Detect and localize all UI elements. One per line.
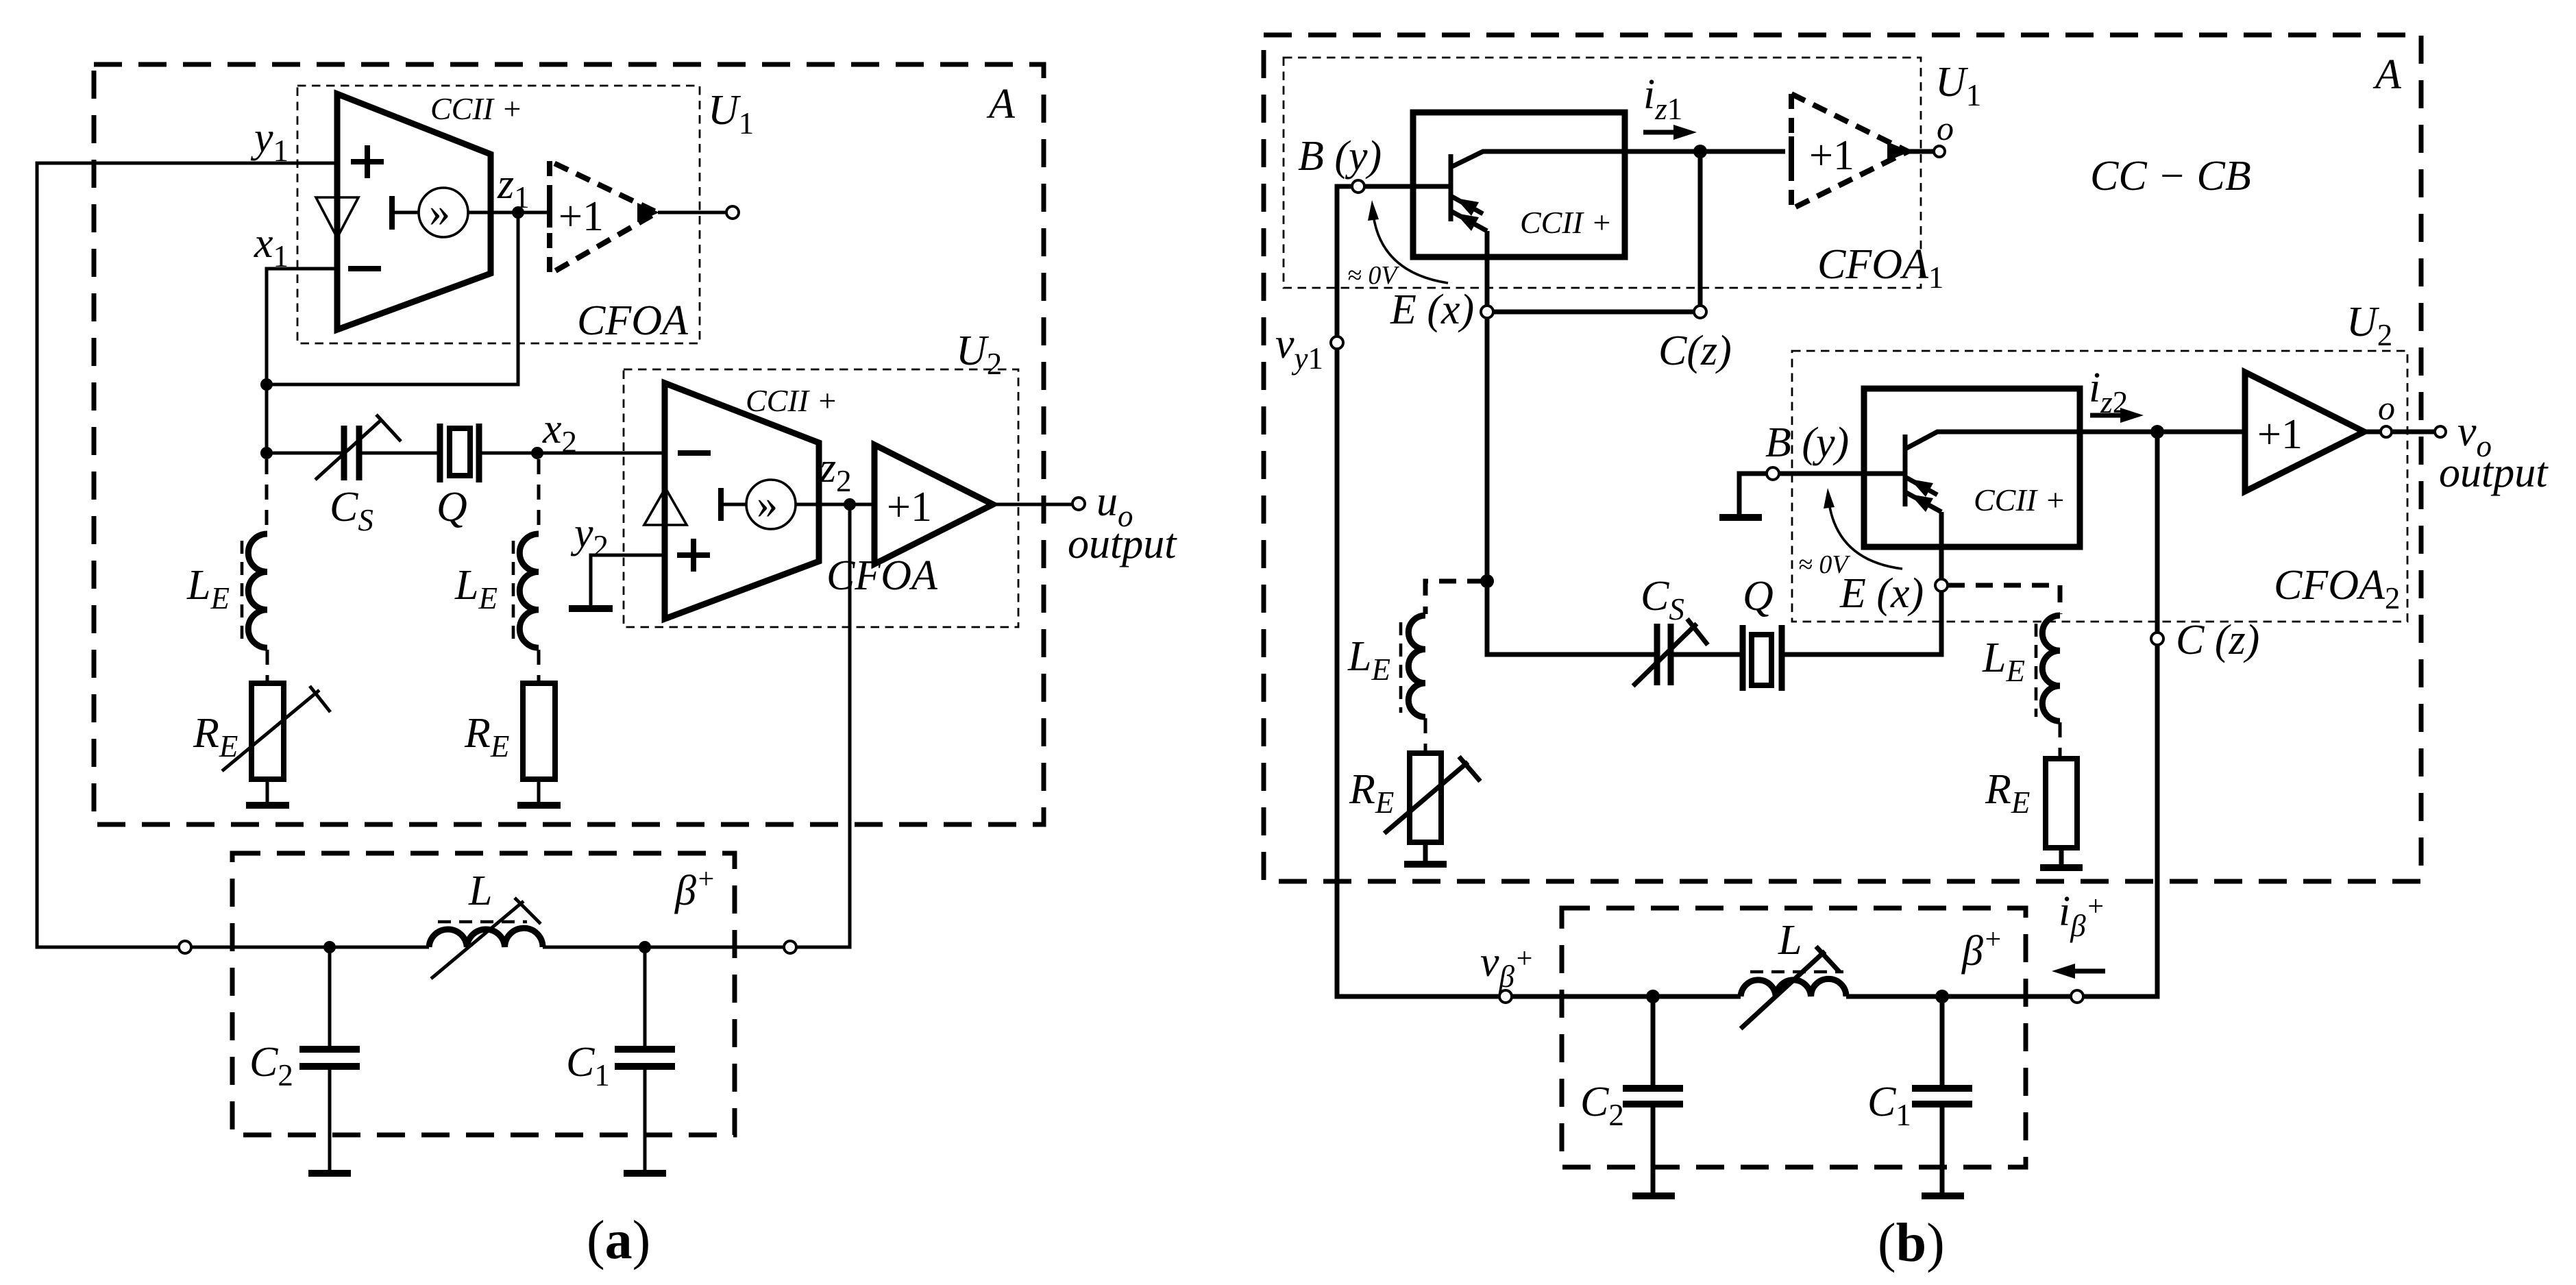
wire E(x) down to crystal branch xyxy=(1487,318,1654,654)
svg-text:CFOA1: CFOA1 xyxy=(1817,241,1943,295)
wire base B(y) to transistor xyxy=(1364,184,1451,189)
svg-text:CS: CS xyxy=(330,484,373,537)
U1 current source circle xyxy=(419,188,468,237)
svg-text:y2: y2 xyxy=(570,510,609,563)
feedback network beta+ dashed box xyxy=(232,853,735,1135)
svg-text:vβ+: vβ+ xyxy=(1480,939,1534,994)
capacitor C2 xyxy=(328,947,332,1049)
wire y1 (top input wire to U1 +) xyxy=(37,163,337,947)
svg-text:+1: +1 xyxy=(559,193,604,240)
U1 current source bar xyxy=(389,196,395,230)
terminal E(x) of U2 xyxy=(1935,579,1948,591)
junction E(x)1 to LE branch xyxy=(1480,574,1494,588)
resistor RE (left, variable, fig b) xyxy=(1410,753,1441,842)
wire emitter down to E(x) xyxy=(1485,231,1490,306)
wire base B(y)2 xyxy=(1779,472,1905,476)
terminal vo output xyxy=(2435,426,2446,437)
CFOA2 dotted box xyxy=(1792,351,2407,622)
CFOA U1 dotted box xyxy=(297,86,700,343)
wire y2 with ground xyxy=(591,555,665,606)
terminal vy1 xyxy=(1331,336,1343,349)
wire z1 drop to C(z) xyxy=(1698,151,1703,306)
svg-text:E (x): E (x) xyxy=(1839,570,1924,617)
terminal left port of beta network xyxy=(179,941,191,953)
L adjust arrow (b) xyxy=(1741,951,1825,1029)
CCII+ box of CFOA2 xyxy=(1864,389,2080,547)
svg-text:CCII +: CCII + xyxy=(746,383,838,418)
terminal right port of beta network xyxy=(784,941,796,953)
node z2 junction dot xyxy=(844,498,856,511)
ground (C1) xyxy=(624,1170,666,1177)
op-amp U2 CCII+ trapezoid xyxy=(665,383,819,619)
svg-text:CFOA2: CFOA2 xyxy=(2274,562,2400,615)
svg-text:CCII +: CCII + xyxy=(430,91,523,126)
terminal o of U2b xyxy=(2381,426,2392,437)
U1 minus input symbol xyxy=(348,266,381,271)
svg-text:C1: C1 xyxy=(1867,1079,1911,1132)
inductor LE (left, fig b) xyxy=(1408,615,1425,717)
svg-text:iz1: iz1 xyxy=(1643,71,1682,126)
dashed link LE to RE (right) xyxy=(537,650,541,683)
transistor Q1 emitter (double) xyxy=(1452,197,1483,214)
terminal v beta+ xyxy=(1499,990,1512,1003)
crystal Q xyxy=(440,424,479,482)
svg-text:U1: U1 xyxy=(708,87,754,140)
svg-text:≈ 0V: ≈ 0V xyxy=(1347,261,1399,290)
transistor Q2 collector xyxy=(1906,432,2245,448)
svg-text:x2: x2 xyxy=(542,406,577,459)
iz2 arrow xyxy=(2090,413,2123,418)
wire B(y)2 to ground xyxy=(1739,474,1767,515)
junction x1-z1 xyxy=(260,378,273,391)
wire RE left to ground (b) xyxy=(1423,842,1428,861)
buffer +1 of U1 (dashed) xyxy=(550,161,657,274)
svg-text:z1: z1 xyxy=(497,161,530,215)
wire vy1 vertical xyxy=(1337,186,1352,336)
svg-text:C(z): C(z) xyxy=(1658,328,1732,374)
resistor RE (left, variable) xyxy=(252,683,284,779)
svg-text:≈ 0V: ≈ 0V xyxy=(1798,550,1850,579)
svg-text:(a): (a) xyxy=(587,1210,650,1271)
node z1 junction dot xyxy=(512,206,524,219)
svg-text:+1: +1 xyxy=(1809,132,1854,179)
capacitor CS (variable, series) xyxy=(344,426,359,480)
capacitor C1 (b) xyxy=(1940,996,1945,1088)
resistor RE (right, fig b) xyxy=(2046,759,2077,848)
node z1 junction (b) xyxy=(1693,145,1707,158)
ground (B(y)2) xyxy=(1719,514,1762,521)
dashed link to LE left (b) xyxy=(1425,581,1484,614)
svg-text:CFOA: CFOA xyxy=(826,552,938,599)
i beta+ arrow xyxy=(2072,969,2105,974)
wire RE right to ground (b) xyxy=(2059,848,2064,865)
svg-text:(b): (b) xyxy=(1878,1213,1945,1273)
wire U2 buffer to output xyxy=(993,503,1072,506)
L core dashed line xyxy=(438,920,527,924)
wire v beta+ into network xyxy=(1512,994,1741,999)
wire buffer2 out xyxy=(2364,430,2380,435)
svg-text:output: output xyxy=(1068,521,1177,567)
junction C1 top xyxy=(639,941,651,953)
transistor Q1 collector xyxy=(1452,151,1785,167)
ground (C1 b) xyxy=(1922,1192,1964,1199)
svg-text:»: » xyxy=(429,189,450,236)
transistor Q1 base bar xyxy=(1449,154,1453,221)
emitter arrowheads Q2 xyxy=(1910,479,1933,497)
LE right core dashed line xyxy=(512,541,515,641)
wire Cs to Q xyxy=(360,452,439,455)
terminal C(z) of U1 xyxy=(1694,306,1706,318)
node z2 junction (b) xyxy=(2150,425,2164,439)
svg-text:CCII +: CCII + xyxy=(1974,482,2066,517)
U1 voltage follower triangle xyxy=(316,197,358,238)
wire port to C1 node xyxy=(645,946,784,949)
junction C2 top (b) xyxy=(1646,990,1660,1003)
ground (RE left) xyxy=(246,802,289,809)
svg-text:β+: β+ xyxy=(1961,924,2002,975)
curved arrow 0V U2 xyxy=(1829,503,1902,569)
wire CS to Q (b) xyxy=(1673,652,1740,657)
transistor Q2 emitter (double) xyxy=(1906,478,1937,495)
dashed drop to right LE xyxy=(537,459,541,534)
wire z1 out of U1 xyxy=(468,211,550,215)
svg-text:iβ+: iβ+ xyxy=(2059,888,2105,943)
svg-text:C1: C1 xyxy=(566,1039,610,1092)
svg-text:C2: C2 xyxy=(249,1039,293,1092)
buffer +1 of U2 xyxy=(874,445,993,564)
wire z2 down to feedback network xyxy=(796,504,850,947)
wire RE right to ground xyxy=(537,779,541,803)
junction x2 xyxy=(531,447,543,459)
svg-text:CFOA: CFOA xyxy=(577,297,689,344)
wire x-z feedback (b U1) xyxy=(1493,310,1694,315)
svg-text:A: A xyxy=(2372,51,2402,98)
svg-text:o: o xyxy=(2378,389,2395,427)
svg-text:LE: LE xyxy=(454,562,498,615)
svg-text:vy1: vy1 xyxy=(1275,321,1323,376)
ground (RE right b) xyxy=(2040,864,2083,871)
svg-text:+1: +1 xyxy=(887,484,932,530)
CCII+ box of CFOA1 xyxy=(1413,112,1625,257)
ground (RE left b) xyxy=(1404,861,1447,868)
U1 plus input symbol xyxy=(351,145,384,178)
svg-text:C2: C2 xyxy=(1580,1079,1624,1132)
svg-text:RE: RE xyxy=(193,710,238,763)
svg-text:L: L xyxy=(468,868,492,914)
amplifier block A dashed box xyxy=(94,64,1044,824)
inductor LE (right, fig b) xyxy=(2042,615,2060,721)
wire L to C1 node (b) xyxy=(1846,994,2071,999)
wire L to C1 node xyxy=(543,946,645,949)
inductor LE (left, fig a) xyxy=(248,534,267,648)
svg-text:o: o xyxy=(1937,109,1954,147)
svg-text:Q: Q xyxy=(437,484,467,530)
inductor L (variable, fig a) xyxy=(429,928,543,947)
U2 plus input symbol xyxy=(677,539,710,572)
junction x1-Cs xyxy=(260,447,273,459)
junction C2 top xyxy=(323,941,336,953)
svg-text:y1: y1 xyxy=(250,114,289,168)
svg-text:Q: Q xyxy=(1743,573,1774,620)
terminal E(x) of U1 xyxy=(1481,306,1493,318)
svg-text:β+: β+ xyxy=(674,864,715,914)
buffer U1b input bar xyxy=(1789,136,1794,167)
inductor LE (right, fig a) xyxy=(519,534,539,648)
terminal uo output xyxy=(1072,498,1085,510)
dashed link LE-RE right (b) xyxy=(2059,722,2062,759)
svg-text:U2: U2 xyxy=(956,328,1002,381)
emitter arrowheads Q1 xyxy=(1456,198,1479,216)
svg-text:U2: U2 xyxy=(2346,299,2392,352)
U2 current source circle xyxy=(746,480,796,529)
terminal right port (b) xyxy=(2071,990,2083,1003)
capacitor C1 xyxy=(643,947,647,1049)
ground (C2) xyxy=(308,1170,351,1177)
svg-text:RE: RE xyxy=(1985,766,2030,820)
svg-text:L: L xyxy=(1778,917,1802,964)
wire C(z)2 down to bottom xyxy=(2083,645,2157,996)
dashed drop to left LE xyxy=(265,459,269,534)
terminal o of U1b xyxy=(1934,146,1945,157)
transistor Q2 base bar xyxy=(1903,435,1908,506)
terminal U1 output xyxy=(726,206,739,219)
ground (RE right) xyxy=(517,802,561,809)
resistor RE (right) xyxy=(523,683,555,779)
wire x1 (U1 - input) xyxy=(267,269,337,453)
wire to capacitor Cs xyxy=(267,452,343,455)
svg-text:E (x): E (x) xyxy=(1390,286,1474,333)
svg-text:»: » xyxy=(757,481,778,528)
curved arrow 0V U1 xyxy=(1373,215,1448,283)
dashed link LE-RE left (b) xyxy=(1424,718,1427,753)
wire left port into network xyxy=(191,946,429,949)
CS adjust arrow xyxy=(315,419,382,480)
wire Q to x2 xyxy=(480,452,665,455)
wire buffer out U1b xyxy=(1909,149,1933,154)
wire vy1 down to bottom xyxy=(1337,349,1499,996)
wire to vo terminal xyxy=(2392,430,2434,435)
U2 current source bar xyxy=(718,488,724,521)
svg-text:RE: RE xyxy=(464,710,509,763)
svg-text:CS: CS xyxy=(1641,573,1684,626)
U2 minus input symbol xyxy=(678,450,711,456)
wire z1 feedback to x1 xyxy=(267,212,518,384)
LE left core dashed (b) xyxy=(1399,622,1403,713)
amplifier block A dashed box (fig b) xyxy=(1264,35,2421,881)
svg-text:B (y): B (y) xyxy=(1298,133,1382,180)
junction C1 top (b) xyxy=(1935,990,1949,1003)
buffer U1b apex arrowhead xyxy=(1887,142,1911,161)
buffer U1 input bar xyxy=(547,197,552,228)
ground (C2 b) xyxy=(1632,1192,1675,1199)
svg-text:U1: U1 xyxy=(1935,59,1981,112)
wire Q to emitter2 xyxy=(1784,591,1941,654)
CS adjust arrow (b) xyxy=(1633,624,1697,686)
svg-text:CC − CB: CC − CB xyxy=(2090,153,2251,199)
inductor L (variable, fig b) xyxy=(1741,979,1846,996)
wire z2 drop to C(z)2 xyxy=(2155,432,2160,633)
svg-text:LE: LE xyxy=(1347,633,1390,687)
terminal B(y) of U1 xyxy=(1352,180,1364,193)
L core dashed line (b) xyxy=(1750,970,1843,974)
dashed link LE to RE (left) xyxy=(266,650,269,683)
svg-text:A: A xyxy=(986,81,1016,127)
svg-text:z2: z2 xyxy=(819,445,852,498)
LE right core dashed (b) xyxy=(2035,624,2038,717)
svg-text:B (y): B (y) xyxy=(1765,419,1849,466)
op-amp U1 CCII+ trapezoid xyxy=(337,94,491,330)
iz1 arrow xyxy=(1643,130,1676,135)
wire RE left to ground xyxy=(266,779,269,803)
terminal B(y) of U2 xyxy=(1767,467,1779,480)
svg-text:output: output xyxy=(2439,450,2549,496)
buffer U1 apex arrowhead xyxy=(637,203,659,222)
RE left adjust arrow (b) xyxy=(1384,762,1468,833)
CFOA1 dotted box xyxy=(1284,58,1921,288)
svg-text:CCII +: CCII + xyxy=(1520,205,1612,240)
feedback network beta+ dashed box (fig b) xyxy=(1562,908,2026,1167)
svg-text:LE: LE xyxy=(186,562,230,615)
wire emitter2 down xyxy=(1939,512,1944,579)
terminal C(z) of U2 xyxy=(2151,633,2163,645)
capacitor C2 (b) xyxy=(1651,996,1656,1088)
LE left core dashed line xyxy=(241,541,244,641)
ground (y2) xyxy=(569,605,613,612)
svg-text:RE: RE xyxy=(1349,766,1394,820)
capacitor CS (fig b) xyxy=(1657,624,1671,685)
wire U2 bar to current source xyxy=(721,503,747,506)
svg-text:LE: LE xyxy=(1982,635,2025,688)
svg-text:x1: x1 xyxy=(254,220,289,273)
dashed link E(x)2 to LE right (b) xyxy=(1948,585,2060,614)
L adjust arrow xyxy=(431,901,524,979)
CFOA U2 dotted box xyxy=(624,369,1018,627)
svg-text:C (z): C (z) xyxy=(2176,617,2259,663)
svg-text:+1: +1 xyxy=(2257,411,2303,458)
RE left adjust arrow xyxy=(222,690,319,771)
wire U1 bar to current source xyxy=(392,211,419,215)
wire z2 out of U2 xyxy=(796,503,874,506)
crystal Q (fig b) xyxy=(1743,625,1782,691)
buffer +1 of U2 (fig b) xyxy=(2245,372,2364,491)
wire U1 buffer output xyxy=(658,211,726,215)
U2 voltage follower triangle xyxy=(644,488,687,525)
buffer +1 of U1 (dashed, fig b) xyxy=(1791,94,1908,209)
